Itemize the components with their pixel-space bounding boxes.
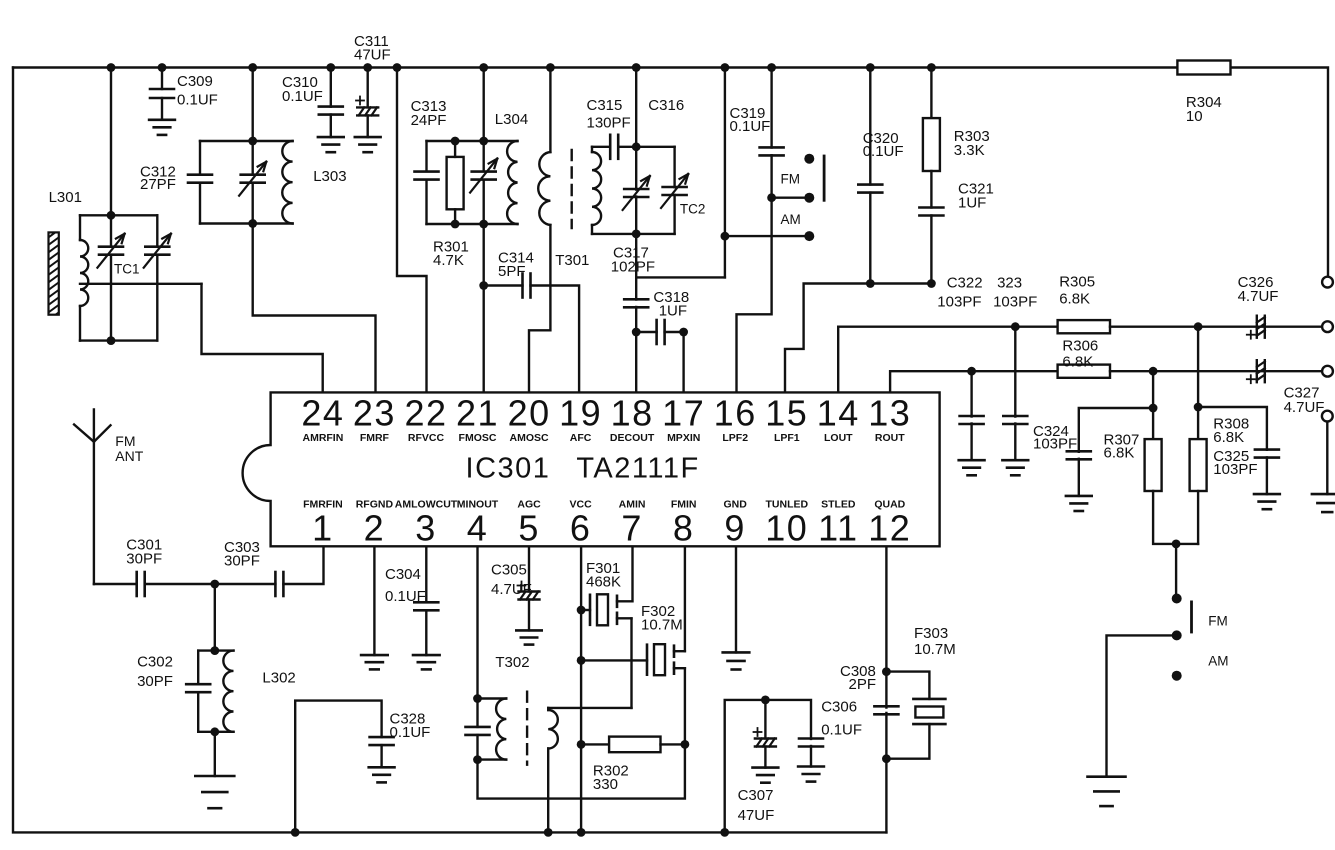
svg-text:FM: FM <box>781 172 801 187</box>
svg-text:AM: AM <box>781 212 801 227</box>
svg-text:6: 6 <box>570 507 592 548</box>
svg-text:1UF: 1UF <box>958 195 986 212</box>
svg-text:0.1UF: 0.1UF <box>390 724 431 741</box>
svg-text:C316: C316 <box>648 97 684 114</box>
svg-text:130PF: 130PF <box>587 115 631 132</box>
svg-text:FMOSC: FMOSC <box>459 432 497 444</box>
svg-text:10: 10 <box>765 507 808 548</box>
svg-text:47UF: 47UF <box>738 807 775 824</box>
svg-text:30PF: 30PF <box>126 551 162 568</box>
svg-text:FM: FM <box>115 433 135 449</box>
svg-text:8: 8 <box>673 507 695 548</box>
svg-text:F303: F303 <box>914 625 948 642</box>
svg-text:LOUT: LOUT <box>824 432 853 444</box>
svg-text:FM: FM <box>1208 613 1228 628</box>
svg-text:21: 21 <box>456 393 499 434</box>
svg-text:L301: L301 <box>49 189 82 206</box>
svg-text:0.1UF: 0.1UF <box>385 588 426 605</box>
svg-text:FMRF: FMRF <box>360 432 390 444</box>
svg-text:0.1UF: 0.1UF <box>821 722 862 739</box>
svg-text:47UF: 47UF <box>354 47 391 64</box>
svg-text:6.8K: 6.8K <box>1213 429 1244 446</box>
svg-text:AMOSC: AMOSC <box>510 432 550 444</box>
svg-text:13: 13 <box>868 393 911 434</box>
svg-text:4: 4 <box>467 507 489 548</box>
svg-text:6.8K: 6.8K <box>1062 354 1093 371</box>
svg-text:30PF: 30PF <box>137 673 173 690</box>
svg-text:IC301: IC301 <box>466 453 551 485</box>
svg-text:2PF: 2PF <box>849 676 877 693</box>
svg-text:22: 22 <box>404 393 447 434</box>
svg-text:103PF: 103PF <box>1033 436 1077 453</box>
svg-text:23: 23 <box>353 393 396 434</box>
svg-text:14: 14 <box>817 393 860 434</box>
svg-text:LPF2: LPF2 <box>722 432 748 444</box>
svg-text:4.7UF: 4.7UF <box>491 581 532 598</box>
svg-text:R305: R305 <box>1059 274 1095 291</box>
svg-text:10: 10 <box>1186 108 1203 125</box>
svg-text:10.7M: 10.7M <box>914 641 956 658</box>
svg-text:TA2111F: TA2111F <box>576 453 699 485</box>
svg-text:3.3K: 3.3K <box>954 142 985 159</box>
svg-text:12: 12 <box>868 507 911 548</box>
svg-text:10.7M: 10.7M <box>641 617 683 634</box>
svg-text:7: 7 <box>621 507 643 548</box>
svg-text:5PF: 5PF <box>498 263 526 280</box>
svg-text:5: 5 <box>518 507 540 548</box>
svg-text:103PF: 103PF <box>1213 461 1257 478</box>
svg-text:6.8K: 6.8K <box>1059 291 1090 308</box>
svg-text:17: 17 <box>662 393 705 434</box>
svg-text:LPF1: LPF1 <box>774 432 800 444</box>
svg-text:AFC: AFC <box>570 432 592 444</box>
svg-text:27PF: 27PF <box>140 176 176 193</box>
svg-text:20: 20 <box>508 393 551 434</box>
svg-text:6.8K: 6.8K <box>1104 445 1135 462</box>
svg-text:330: 330 <box>593 776 618 793</box>
svg-text:24PF: 24PF <box>411 112 447 129</box>
svg-text:L303: L303 <box>313 168 346 185</box>
svg-text:C315: C315 <box>587 97 623 114</box>
svg-text:2: 2 <box>364 507 386 548</box>
svg-text:T302: T302 <box>495 654 529 671</box>
svg-text:30PF: 30PF <box>224 553 260 570</box>
svg-text:1UF: 1UF <box>659 303 687 320</box>
svg-text:R306: R306 <box>1062 337 1098 354</box>
svg-text:0.1UF: 0.1UF <box>282 88 323 105</box>
svg-text:24: 24 <box>301 393 344 434</box>
svg-text:AMRFIN: AMRFIN <box>302 432 343 444</box>
svg-text:3: 3 <box>415 507 437 548</box>
svg-text:TC1: TC1 <box>114 262 140 277</box>
svg-text:L302: L302 <box>262 669 295 686</box>
svg-text:9: 9 <box>724 507 746 548</box>
svg-text:AM: AM <box>1208 654 1228 669</box>
svg-text:11: 11 <box>818 507 858 548</box>
svg-text:323: 323 <box>997 275 1022 292</box>
svg-text:468K: 468K <box>586 574 621 591</box>
svg-text:103PF: 103PF <box>993 293 1037 310</box>
svg-text:C309: C309 <box>177 73 213 90</box>
svg-text:MPXIN: MPXIN <box>667 432 700 444</box>
svg-text:1: 1 <box>312 507 334 548</box>
svg-text:4.7K: 4.7K <box>433 252 464 269</box>
svg-text:19: 19 <box>559 393 602 434</box>
svg-text:C304: C304 <box>385 566 421 583</box>
svg-text:ANT: ANT <box>115 448 143 464</box>
svg-text:4.7UF: 4.7UF <box>1284 399 1325 416</box>
svg-text:T301: T301 <box>555 252 589 269</box>
svg-text:C302: C302 <box>137 654 173 671</box>
svg-text:4.7UF: 4.7UF <box>1238 288 1279 305</box>
svg-text:C307: C307 <box>738 787 774 804</box>
svg-text:TC2: TC2 <box>680 201 706 216</box>
svg-text:0.1UF: 0.1UF <box>730 118 771 135</box>
svg-text:ROUT: ROUT <box>875 432 905 444</box>
svg-text:0.1UF: 0.1UF <box>863 143 904 160</box>
svg-text:0.1UF: 0.1UF <box>177 92 218 109</box>
svg-text:18: 18 <box>611 393 654 434</box>
svg-text:15: 15 <box>765 393 808 434</box>
svg-text:16: 16 <box>714 393 757 434</box>
svg-text:C305: C305 <box>491 562 527 579</box>
svg-text:DECOUT: DECOUT <box>610 432 655 444</box>
svg-text:RFVCC: RFVCC <box>408 432 445 444</box>
svg-text:C322: C322 <box>947 275 983 292</box>
svg-text:103PF: 103PF <box>937 293 981 310</box>
svg-text:102PF: 102PF <box>611 259 655 276</box>
svg-text:L304: L304 <box>495 111 528 128</box>
svg-text:C306: C306 <box>821 699 857 716</box>
